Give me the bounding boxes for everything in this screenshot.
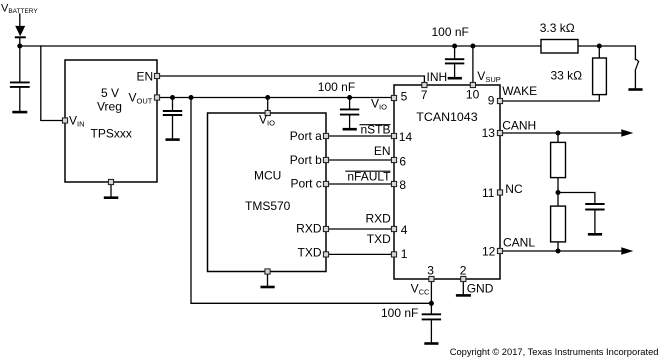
wire: MCU Port b to TCAN EN pin 6 xyxy=(326,159,393,161)
wire: C5 bottom to ground xyxy=(430,320,432,342)
pin: TCAN 13 CANH xyxy=(497,130,502,135)
node: C4 junction on rail xyxy=(452,44,457,49)
wire: VBAT top rail left of 3.3k resistor xyxy=(20,45,541,47)
wire: TPS EN output to TCAN INH pin 7 xyxy=(157,76,424,84)
svg-text:100 nF: 100 nF xyxy=(318,80,355,94)
svg-text:TMS570: TMS570 xyxy=(245,199,291,213)
ground for C1 xyxy=(12,111,27,114)
node: C2 junction on 5V rail xyxy=(170,95,175,100)
svg-text:TCAN1043: TCAN1043 xyxy=(416,110,477,124)
wire: C2 top stub xyxy=(172,98,174,111)
svg-text:RXD: RXD xyxy=(296,222,322,236)
svg-text:100 nF: 100 nF xyxy=(432,25,469,39)
wire: VCC feed from 5V rail down and right to VCC junction xyxy=(191,98,431,304)
wire: CANL from pin 12 to bus arrow xyxy=(501,250,623,252)
wire: top rail right of 3.3k resistor to switch xyxy=(578,46,635,60)
svg-text:1: 1 xyxy=(401,247,408,261)
wire: C2 bottom to ground xyxy=(172,116,174,138)
svg-text:14: 14 xyxy=(399,130,413,144)
wire: battery input to C1 top xyxy=(19,46,21,81)
capacitor C4 VSUP 100nF xyxy=(445,59,464,63)
svg-text:Port a: Port a xyxy=(290,129,322,143)
wire: C5 top stub xyxy=(430,303,432,313)
wire: C1 bottom to ground xyxy=(19,88,21,111)
ground for C4 xyxy=(448,77,462,80)
ground for switch xyxy=(628,88,642,91)
CANH bus arrow xyxy=(621,129,633,136)
svg-text:6: 6 xyxy=(399,155,406,169)
wire: MCU RXD to TCAN RXD pin 4 xyxy=(326,228,393,230)
wire: WAKE pin 9 to bottom of 33k resistor xyxy=(501,95,599,101)
svg-text:3: 3 xyxy=(427,264,434,278)
pin: TPS VIN xyxy=(62,118,67,123)
svg-text:33 kΩ: 33 kΩ xyxy=(551,69,583,83)
wire: C3 bottom to ground xyxy=(349,116,351,128)
svg-text:CANL: CANL xyxy=(503,236,535,250)
svg-text:NC: NC xyxy=(505,182,523,196)
svg-text:GND: GND xyxy=(467,282,494,296)
node: VCC feed junction on 5V rail xyxy=(189,95,194,100)
wire: switch lower segment to ground xyxy=(634,70,636,88)
wire: C6 bottom to ground xyxy=(594,211,596,233)
svg-text:2: 2 xyxy=(460,264,467,278)
wire: VSUP drop from rail to pin 10 xyxy=(472,46,474,84)
wire: center tap to termination capacitor C6 xyxy=(558,193,595,204)
wire: R3 bottom to R4 top through center tap xyxy=(557,178,559,207)
wire: MCU Port a to TCAN nSTB pin 14 xyxy=(326,135,393,137)
node: 33k junction on rail xyxy=(597,44,602,49)
wire: C4 bottom to ground xyxy=(454,64,456,77)
pin: TPS GND xyxy=(108,179,113,184)
node: CANH termination junction xyxy=(556,131,561,136)
svg-text:MCU: MCU xyxy=(254,169,281,183)
wire: C4 top stub xyxy=(454,46,456,58)
svg-text:12: 12 xyxy=(482,245,496,259)
svg-text:WAKE: WAKE xyxy=(502,84,537,98)
svg-text:INH: INH xyxy=(427,70,448,84)
svg-text:Vreg: Vreg xyxy=(97,100,122,114)
ground for MCU xyxy=(261,286,275,289)
wire: R4 bottom to CANL line xyxy=(557,242,559,251)
wire: MCU ground stub xyxy=(267,272,269,286)
pin: TPS EN xyxy=(154,73,159,78)
pin: MCU Port b xyxy=(323,157,328,162)
svg-text:5 V: 5 V xyxy=(101,86,119,100)
svg-text:TPSxxx: TPSxxx xyxy=(91,127,132,141)
svg-text:4: 4 xyxy=(401,223,408,237)
wire: TCAN GND pin 2 ground stub xyxy=(462,280,464,294)
pin: TCAN 14 nSTB xyxy=(391,133,396,138)
overline for nSTB xyxy=(360,124,391,126)
pin: TCAN 11 NC xyxy=(497,190,502,195)
svg-text:TXD: TXD xyxy=(367,232,391,246)
svg-text:Port b: Port b xyxy=(290,153,322,167)
node: termination center tap xyxy=(556,190,561,195)
node: MCU VIO junction on 5V rail xyxy=(265,95,270,100)
svg-text:11: 11 xyxy=(482,186,495,200)
MCU U2 TMS570 box xyxy=(208,113,327,272)
ground for TCAN GND pin xyxy=(456,294,471,297)
svg-text:Port c: Port c xyxy=(290,177,321,191)
svg-text:EN: EN xyxy=(374,144,391,158)
pin: MCU Port c xyxy=(323,181,328,186)
svg-text:7: 7 xyxy=(421,88,428,102)
svg-text:100 nF: 100 nF xyxy=(381,306,418,320)
wire: VBAT rail down to VIN pin of TPS xyxy=(41,46,64,121)
pin: MCU GND xyxy=(265,269,270,274)
capacitor C2 VOUT decoupling xyxy=(163,111,182,115)
pin: TCAN 9 WAKE xyxy=(497,98,502,103)
svg-text:10: 10 xyxy=(466,88,480,102)
svg-text:EN: EN xyxy=(137,70,154,84)
capacitor C6 termination xyxy=(585,204,604,210)
pin: MCU TXD xyxy=(323,252,328,257)
wire: MCU TXD to TCAN TXD pin 1 xyxy=(326,253,393,255)
capacitor C3 VIO 100nF xyxy=(340,109,359,114)
pin: MCU RXD xyxy=(323,226,328,231)
node: CANL termination junction xyxy=(556,249,561,254)
wire: C3 top stub xyxy=(349,98,351,109)
resistor R2 33k xyxy=(593,58,607,95)
wire: MCU Port c to TCAN nFAULT pin 8 xyxy=(326,183,393,185)
pin: TCAN 7 INH xyxy=(422,82,427,87)
pin squares xyxy=(62,73,502,281)
pin: TCAN 12 CANL xyxy=(497,248,502,253)
pin: MCU VIO xyxy=(265,110,270,115)
wire: 5V / VIO rail from VOUT to TCAN pin 5 xyxy=(157,97,393,99)
pin: TCAN 3 VCC xyxy=(429,276,434,281)
ground for C6 xyxy=(588,233,602,236)
pin: TPS VOUT xyxy=(154,95,159,100)
svg-text:3.3 kΩ: 3.3 kΩ xyxy=(540,21,575,35)
svg-text:9: 9 xyxy=(488,94,495,108)
node: VCC decoupling junction xyxy=(429,301,434,306)
ground for C5 xyxy=(424,342,438,345)
svg-text:RXD: RXD xyxy=(365,211,391,225)
svg-text:5: 5 xyxy=(401,89,408,103)
svg-text:TXD: TXD xyxy=(298,246,322,260)
wire: TPS ground stub xyxy=(110,182,112,196)
wire: diode anode stub from VBATTERY label xyxy=(19,14,21,26)
capacitor C1 battery input xyxy=(10,82,30,87)
wire: VIO drop to MCU VIO pin xyxy=(267,98,269,113)
switch SW1 blade xyxy=(635,59,639,70)
node: VBAT diode junction xyxy=(17,44,22,49)
pin: TCAN 2 GND xyxy=(461,276,466,281)
pin: TCAN 10 VSUP xyxy=(470,82,475,87)
pin: TCAN 6 EN xyxy=(391,157,396,162)
wire: CANH junction down to termination resistor R3 xyxy=(557,133,559,142)
svg-text:Copyright © 2017, Texas Instru: Copyright © 2017, Texas Instruments Inco… xyxy=(450,347,659,357)
regulator U1 TPSxxx box xyxy=(65,60,157,182)
overline for nFAULT xyxy=(345,170,390,172)
pin: MCU Port a xyxy=(323,133,328,138)
resistor R1 3.3k xyxy=(541,40,578,54)
wire: 33k resistor top to rail junction xyxy=(598,46,600,58)
resistor R3 CANH termination xyxy=(551,142,566,177)
capacitor C5 VCC 100nF xyxy=(422,314,441,319)
ground for C2 xyxy=(166,138,180,141)
diode D1 xyxy=(15,26,26,37)
pin: TCAN 5 VIO xyxy=(391,95,396,100)
ground for TPS xyxy=(104,196,119,199)
pin: TCAN 4 RXD xyxy=(391,226,396,231)
transceiver U3 TCAN1043 box xyxy=(394,85,500,279)
svg-text:13: 13 xyxy=(482,126,496,140)
svg-text:8: 8 xyxy=(399,178,406,192)
node: VSUP junction on rail xyxy=(470,44,475,49)
wire: VCC pin 3 down to decoupling junction xyxy=(430,280,432,303)
pin: TCAN 1 TXD xyxy=(391,252,396,257)
pin: TCAN 8 nFAULT xyxy=(391,181,396,186)
CANL bus arrow xyxy=(621,247,633,254)
node: C3 junction on 5V rail xyxy=(347,95,352,100)
svg-text:CANH: CANH xyxy=(502,119,536,133)
ground for C3 xyxy=(343,128,357,131)
resistor R4 CANL termination xyxy=(551,206,566,242)
wire: diode cathode to junction xyxy=(19,38,21,47)
wire: CANH from pin 13 to bus arrow xyxy=(501,132,623,134)
